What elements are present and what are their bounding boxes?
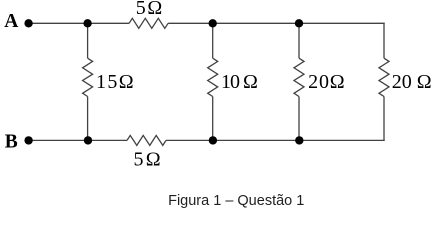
junction node N2 bbox=[209, 19, 217, 27]
wire node N3 down to resistor R4 bbox=[298, 23, 300, 58]
wire node N1 to resistor R1 bbox=[88, 22, 130, 24]
wire resistor R6 down to bottom-right corner bbox=[383, 97, 385, 142]
wire node N6 to bottom-right corner bbox=[299, 139, 384, 141]
resistor R3 10Ω zigzag bbox=[208, 58, 218, 96]
wire resistor R1 to node N2 bbox=[168, 22, 213, 24]
wire node N3 to top-right corner bbox=[299, 22, 385, 24]
svg-text:10 Ω: 10 Ω bbox=[221, 71, 257, 93]
wire resistor R3 down to node N5 bbox=[212, 97, 214, 141]
wire resistor R2 down to node N4 bbox=[87, 97, 89, 141]
wire resistor R4 down to node N6 bbox=[298, 97, 300, 141]
wire node N4 to resistor R5 bbox=[88, 139, 127, 141]
wire node N2 to node N3 bbox=[213, 22, 299, 24]
junction node N3 bbox=[295, 19, 303, 27]
svg-text:15Ω: 15Ω bbox=[96, 71, 135, 93]
resistor R2 15Ω zigzag bbox=[83, 58, 93, 96]
wire node N5 to node N6 bbox=[213, 139, 299, 141]
terminal dot B bbox=[24, 136, 32, 144]
wire node N2 down to resistor R3 bbox=[212, 23, 214, 58]
svg-text:Figura 1 – Questão 1: Figura 1 – Questão 1 bbox=[168, 193, 304, 209]
svg-text:B: B bbox=[5, 131, 18, 152]
resistor R6 20Ω (rightmost) zigzag bbox=[379, 58, 389, 96]
svg-text:A: A bbox=[4, 11, 18, 32]
svg-text:20Ω: 20Ω bbox=[308, 71, 345, 93]
resistor R1 5Ω (top horizontal) zigzag bbox=[129, 18, 168, 28]
wire top-right corner down to resistor R6 bbox=[383, 23, 385, 59]
resistor R5 5Ω (bottom horizontal) zigzag bbox=[127, 135, 166, 145]
svg-text:5 Ω: 5 Ω bbox=[136, 0, 162, 19]
junction node N4 bbox=[84, 136, 92, 144]
terminal dot A bbox=[24, 19, 32, 27]
junction node N6 bbox=[295, 136, 303, 144]
svg-text:5 Ω: 5 Ω bbox=[134, 149, 160, 171]
wire node N1 down to resistor R2 bbox=[87, 23, 89, 58]
wire resistor R5 to node N5 bbox=[166, 139, 213, 141]
junction node N5 bbox=[209, 136, 217, 144]
svg-text:20 Ω: 20 Ω bbox=[392, 71, 432, 93]
wire B to node N4 (bottom) bbox=[29, 139, 88, 141]
resistor R4 20Ω zigzag bbox=[294, 58, 304, 96]
wire A to node N1 (top) bbox=[29, 22, 88, 24]
junction node N1 bbox=[83, 19, 91, 27]
